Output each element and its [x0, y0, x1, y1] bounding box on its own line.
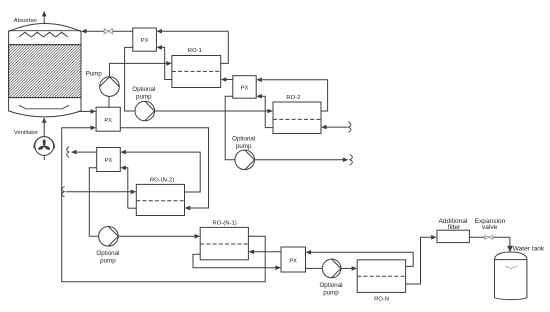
pipe PX5 to optional pump 4 [306, 267, 323, 269]
svg-text:pump: pump [236, 143, 252, 150]
svg-text:PX: PX [141, 38, 149, 44]
additional filter [437, 230, 469, 242]
svg-text:RO-N: RO-N [374, 296, 389, 302]
expansion valve [485, 235, 493, 239]
pipe RO-(N-1) concentrate to big loop to PX3 [62, 125, 266, 281]
optional pump 4 label [319, 282, 342, 297]
pipe optional pump 2 to continuation [255, 158, 349, 163]
pressure exchanger PX3 [96, 107, 120, 131]
pipe PX5 to RO-(N-1) sweep in [248, 250, 281, 255]
svg-text:PX: PX [105, 158, 113, 164]
pipe PX3 to main pump [108, 96, 110, 107]
pipe optional pump 1 to RO-2 feed [155, 109, 273, 114]
svg-text:filter: filter [448, 224, 461, 231]
absorber [0, 24, 133, 117]
pipe PX2 to optional pump 2 [225, 96, 235, 160]
pipe RO-1 concentrate to PX1 (wrap) [156, 29, 228, 64]
pressure exchanger PX2 [233, 76, 256, 99]
pipe PX4 to continuation (left) [71, 150, 97, 155]
svg-text:Water tank: Water tank [513, 245, 545, 252]
pipe RO-N concentrate to PX5 (wrap) [306, 250, 414, 266]
pipe gas outlet from absorber top [42, 11, 47, 24]
svg-text:PX: PX [289, 258, 297, 264]
pipe ventilator to absorber bottom [42, 117, 47, 136]
optional pump 2 label [232, 135, 255, 150]
svg-text:pump: pump [323, 289, 339, 296]
svg-text:pump: pump [100, 257, 116, 264]
reverse osmosis module RO-N [357, 260, 405, 293]
optional pump 1 label [132, 86, 155, 101]
reverse osmosis module RO-1 [172, 56, 221, 88]
pipe filter to expansion valve to water tank [469, 237, 513, 252]
pipe PX1 to absorber (through valve) [81, 29, 133, 34]
ventilator [34, 137, 54, 160]
break symbol left lower [62, 186, 65, 197]
pipe PX1 to optional pump 1 [125, 47, 135, 111]
optional pump 3 label [96, 250, 119, 264]
pipe RO-2 concentrate to PX2 (wrap) [256, 78, 327, 112]
pipe PX2 to RO-1 sweep in [221, 77, 233, 82]
svg-text:RO-(N-1): RO-(N-1) [212, 220, 236, 226]
svg-text:Pump: Pump [86, 71, 103, 78]
additional filter label [439, 218, 468, 231]
break symbol left upper [67, 147, 70, 158]
pressure exchanger PX4 [97, 148, 121, 172]
optional pump 2 [235, 150, 255, 170]
pipe RO-(N-1) sweep out to PX5 [193, 254, 281, 270]
expansion valve label [475, 218, 506, 231]
pipe PX4 to optional pump 3 [89, 168, 98, 237]
reverse osmosis module RO-(N-1) [200, 227, 248, 259]
break symbol right lower [350, 154, 353, 165]
pipe RO-N permeate to additional filter [406, 235, 437, 284]
svg-text:Ventilator: Ventilator [14, 130, 38, 136]
break symbol right upper [348, 122, 351, 133]
optional pump 4 [322, 259, 341, 278]
pipe RO-1 sweep out to PX1 [156, 45, 172, 79]
pump P (main) [100, 77, 120, 97]
pipe sweep into RO-2 from continuation [321, 125, 348, 130]
pipe optional pump 3 to RO-(N-1) feed [118, 234, 200, 239]
pipe absorber to PX3 [78, 109, 96, 114]
svg-text:valve: valve [482, 224, 498, 231]
svg-text:RO-(N-2): RO-(N-2) [150, 177, 174, 183]
pipe RO-(N-2) concentrate to PX4 (wrap) [120, 150, 200, 192]
svg-text:pump: pump [136, 94, 152, 101]
svg-text:Optional: Optional [232, 135, 255, 142]
svg-text:Absorber: Absorber [14, 18, 38, 24]
reverse osmosis module RO-2 [273, 102, 321, 134]
svg-text:PX: PX [104, 118, 112, 124]
reverse osmosis module RO-(N-2) [136, 184, 184, 215]
pipe RO-2 feed branch to PX2 and sweep [256, 94, 273, 128]
svg-text:RO-1: RO-1 [188, 48, 202, 54]
optional pump 1 [135, 101, 155, 121]
svg-text:Optional: Optional [96, 250, 119, 257]
svg-text:Optional: Optional [132, 86, 155, 93]
pipe continuation to RO-(N-2) feed [66, 190, 136, 195]
optional pump 3 [99, 227, 119, 247]
svg-text:Optional: Optional [319, 282, 342, 289]
svg-text:RO-2: RO-2 [286, 95, 300, 101]
pipe RO-(N-2) feed branch to PX4 and sweep [120, 166, 136, 209]
pipe optional pump 4 to RO-N feed [341, 266, 357, 271]
pipe pump to RO-1 feed [110, 61, 172, 77]
pressure exchanger PX5 [281, 247, 306, 272]
water tank [495, 252, 527, 300]
svg-text:PX: PX [241, 86, 249, 92]
pressure exchanger PX1 [133, 28, 157, 51]
valve V1 [104, 29, 112, 34]
pipe PX3 to RO-(N-2) sweep in [120, 128, 208, 211]
